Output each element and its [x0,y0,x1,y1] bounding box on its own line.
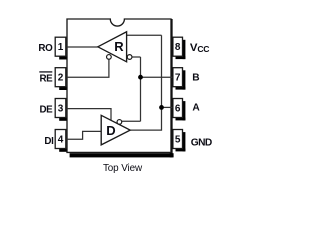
svg-text:4: 4 [58,134,64,145]
svg-text:8: 8 [175,42,181,53]
svg-text:2: 2 [58,73,64,84]
svg-text:1: 1 [58,42,64,53]
svg-text:5: 5 [175,134,181,145]
svg-text:CC: CC [197,44,209,54]
svg-text:A: A [192,103,200,114]
svg-text:Top View: Top View [103,163,143,174]
svg-text:3: 3 [58,103,64,114]
svg-text:DE: DE [39,104,53,115]
svg-text:6: 6 [175,103,181,114]
svg-text:D: D [106,123,115,138]
svg-text:RO: RO [38,43,53,54]
svg-text:GND: GND [191,137,212,148]
svg-text:DI: DI [44,136,54,147]
svg-text:7: 7 [175,73,181,84]
svg-text:B: B [192,73,199,84]
svg-text:RE: RE [39,73,53,84]
svg-text:R: R [114,39,124,54]
